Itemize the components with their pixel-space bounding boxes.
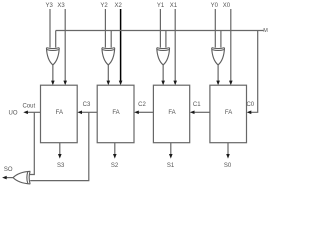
wire M stub 3 xyxy=(55,31,57,48)
wire X3 xyxy=(63,9,67,85)
wire C3 branch down xyxy=(30,112,89,180)
svg-text:S0: S0 xyxy=(224,163,232,169)
svg-text:C1: C1 xyxy=(193,102,201,108)
xor gate B2 xyxy=(102,48,115,65)
xor gate B0 xyxy=(212,48,225,65)
wire Y3 xyxy=(49,9,51,48)
wire xor3 output xyxy=(51,65,55,85)
wire SO output xyxy=(2,176,13,180)
wire X2 bold xyxy=(119,9,123,85)
xor gate overflow xyxy=(13,171,30,184)
wire X1 xyxy=(173,9,177,85)
wire M stub 1 xyxy=(165,31,167,48)
svg-text:Y0: Y0 xyxy=(211,3,219,9)
wire X0 xyxy=(229,9,233,85)
svg-text:FA: FA xyxy=(168,110,175,116)
wire C0 xyxy=(247,31,258,115)
svg-text:Y2: Y2 xyxy=(100,3,108,9)
wire S2 xyxy=(113,143,117,159)
full adder FA0 xyxy=(210,85,247,143)
wire C1 xyxy=(190,111,210,115)
xor gate B3 xyxy=(46,48,59,65)
wire S1 xyxy=(169,143,173,159)
full adder FA1 xyxy=(153,85,189,143)
svg-text:X2: X2 xyxy=(115,3,123,9)
wire Cout xyxy=(23,111,40,115)
svg-text:Y1: Y1 xyxy=(157,3,165,9)
svg-text:Y3: Y3 xyxy=(46,3,54,9)
svg-text:X3: X3 xyxy=(57,3,65,9)
svg-text:FA: FA xyxy=(225,110,232,116)
svg-text:C0: C0 xyxy=(246,102,254,108)
svg-text:SO: SO xyxy=(4,167,13,173)
wire xor0 output xyxy=(216,65,220,85)
wire S3 xyxy=(58,143,62,159)
wire xor2 output xyxy=(107,65,111,85)
svg-text:C2: C2 xyxy=(138,102,146,108)
svg-text:X1: X1 xyxy=(170,3,178,9)
wire C3 xyxy=(77,111,97,115)
full adder FA2 xyxy=(97,85,134,143)
svg-text:S2: S2 xyxy=(111,163,119,169)
svg-text:FA: FA xyxy=(56,110,63,116)
svg-text:S1: S1 xyxy=(167,163,175,169)
svg-text:FA: FA xyxy=(112,110,119,116)
wire S0 xyxy=(226,143,230,159)
wire Y1 xyxy=(159,9,161,48)
wire M bus xyxy=(56,30,264,32)
svg-text:M: M xyxy=(263,28,268,34)
wire C2 xyxy=(134,111,153,115)
wire xor1 output xyxy=(161,65,165,85)
svg-text:UO: UO xyxy=(9,110,18,116)
svg-text:C3: C3 xyxy=(83,102,91,108)
wire M stub 2 xyxy=(110,31,112,48)
wire M stub 0 xyxy=(220,31,222,48)
wire Cout branch down xyxy=(30,112,34,174)
xor gate B1 xyxy=(157,48,170,65)
wire Y0 xyxy=(214,9,216,48)
wire Y2 xyxy=(104,9,106,48)
svg-text:S3: S3 xyxy=(57,163,65,169)
full adder FA3 xyxy=(41,85,78,143)
svg-text:X0: X0 xyxy=(223,3,231,9)
svg-text:Cout: Cout xyxy=(22,104,35,110)
